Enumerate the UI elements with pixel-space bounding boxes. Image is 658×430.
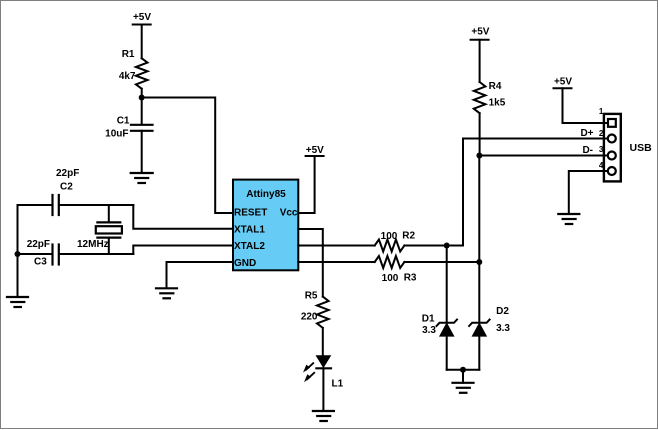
crystal X1 top plate — [97, 221, 120, 223]
wire GND-row pin to R3 — [298, 261, 374, 263]
resistor R5 — [317, 297, 329, 328]
wire D- junction down to R3 junction — [478, 156, 480, 263]
resistor R3 — [375, 256, 405, 268]
wire XTAL1 (corner down into pin) — [133, 205, 232, 229]
svg-text:D+: D+ — [580, 128, 593, 139]
zener diode D2 upper wire — [478, 262, 480, 323]
node junction diode bar/ground — [460, 367, 466, 373]
ground (chip GND) — [156, 288, 177, 298]
crystal X1 top stub — [108, 205, 110, 222]
crystal X1 body — [96, 226, 122, 233]
USB pin 4 pad — [608, 167, 616, 175]
wire pin PB1 to R5 — [298, 229, 323, 297]
svg-text:3: 3 — [599, 145, 604, 154]
zener diode D2 cathode (zener bar) — [469, 320, 490, 326]
wire diode common bottom bar — [447, 369, 480, 371]
wire junction to RESET pin — [142, 98, 233, 214]
wire R5 to LED L1 — [322, 328, 324, 356]
node junction R2/D1 — [444, 243, 450, 249]
svg-text:GND: GND — [234, 258, 256, 269]
LED L1 emission arrow 2 — [304, 373, 314, 382]
svg-text:4k7: 4k7 — [119, 71, 136, 82]
zener diode D2 lower wire — [478, 336, 480, 370]
resistor R1 — [136, 58, 148, 88]
node junction R4/D- — [476, 153, 482, 159]
node junction R3/D2 — [476, 259, 482, 265]
crystal X1 bottom stub — [108, 238, 110, 254]
LED L1 triangle — [316, 356, 330, 368]
ground (left rail) — [7, 297, 28, 307]
capacitor C3 — [53, 245, 59, 265]
svg-text:12MHz: 12MHz — [77, 239, 109, 250]
zener diode D1 upper wire — [446, 246, 448, 323]
IC U1 Attiny85 body — [233, 180, 298, 271]
node junction C3/left rail — [15, 251, 21, 257]
wire R2 to D+ riser — [404, 139, 463, 246]
USB pin 1 square pad — [608, 119, 616, 127]
USB connector J1 body — [604, 114, 621, 181]
wire R3 to D- riser — [404, 261, 479, 263]
wire D+ line to USB pin 2 — [463, 138, 608, 140]
wire left rail vertical — [17, 205, 19, 297]
svg-text:C3: C3 — [34, 257, 47, 268]
svg-text:L1: L1 — [332, 379, 344, 390]
svg-text:220: 220 — [301, 312, 318, 323]
power +5V net (top of R1) — [133, 25, 151, 59]
svg-text:D-: D- — [582, 145, 593, 156]
zener diode D2 triangle — [472, 323, 486, 336]
USB pin 3 pad — [608, 152, 616, 160]
capacitor C2 — [53, 195, 59, 215]
wire left rail to C3 left plate — [18, 253, 53, 255]
svg-text:+5V: +5V — [133, 12, 151, 23]
svg-text:R4: R4 — [489, 81, 502, 92]
LED L1 emission arrow 1 — [303, 363, 313, 372]
USB pin 2 pad — [608, 135, 616, 143]
svg-text:D1: D1 — [422, 314, 435, 325]
svg-text:XTAL1: XTAL1 — [234, 224, 265, 235]
svg-text:Vcc: Vcc — [280, 208, 298, 219]
svg-text:+5V: +5V — [306, 145, 324, 156]
svg-text:C2: C2 — [60, 182, 73, 193]
wire USB pin 4 to ground — [569, 171, 608, 214]
wire left rail to C2 left plate — [18, 204, 53, 206]
ground (below L1) — [313, 411, 334, 421]
svg-text:R2: R2 — [402, 231, 415, 242]
wire +5V to USB pin 1 — [563, 122, 608, 124]
power +5V net (USB pin1) — [554, 88, 572, 123]
svg-text:RESET: RESET — [234, 208, 267, 219]
svg-text:1k5: 1k5 — [489, 98, 506, 109]
svg-text:100: 100 — [382, 273, 399, 284]
node junction R1/C1/RESET — [139, 95, 145, 101]
svg-text:D2: D2 — [496, 306, 509, 317]
svg-text:+5V: +5V — [471, 27, 489, 38]
svg-text:3.3: 3.3 — [422, 325, 436, 336]
wire XTAL2 (corner up into pin) — [133, 246, 232, 255]
wire D- line to USB pin 3 — [479, 155, 608, 157]
svg-text:4: 4 — [599, 161, 604, 170]
zener diode D1 triangle — [440, 323, 454, 336]
svg-text:Attiny85: Attiny85 — [246, 189, 286, 200]
zener diode D1 lower wire — [446, 336, 448, 370]
wire XTAL2-row pin to R2 — [298, 245, 374, 247]
svg-text:1: 1 — [599, 107, 604, 116]
zener diode D1 cathode (zener bar) — [437, 320, 458, 326]
wire GND pin to ground — [167, 262, 234, 288]
svg-text:3.3: 3.3 — [496, 323, 510, 334]
svg-text:C1: C1 — [117, 116, 130, 127]
wire Vcc pin to +5V — [298, 156, 314, 213]
svg-text:2: 2 — [599, 129, 604, 138]
resistor R2 — [375, 240, 405, 252]
svg-text:100: 100 — [381, 231, 398, 242]
ground (USB shield) — [558, 214, 579, 224]
svg-text:22pF: 22pF — [27, 239, 50, 250]
svg-text:XTAL2: XTAL2 — [234, 241, 265, 252]
wire diode bar to ground — [462, 370, 464, 383]
svg-text:10uF: 10uF — [105, 129, 128, 140]
ground (below C1) — [131, 173, 153, 183]
crystal X1 bottom plate — [97, 237, 120, 239]
svg-text:+5V: +5V — [554, 77, 572, 88]
power +5V net (Vcc) — [306, 155, 324, 157]
power +5V net (R4 top) — [471, 40, 489, 82]
svg-text:R1: R1 — [122, 49, 135, 60]
svg-text:22pF: 22pF — [56, 168, 79, 179]
wire R4 bottom crossing D+ to D- junction — [479, 113, 481, 155]
wire L1 cathode to ground — [322, 368, 324, 411]
wire C2 right plate to XTAL1 corner — [59, 204, 133, 206]
svg-text:R3: R3 — [404, 272, 417, 283]
wire C3 right plate to XTAL2 corner — [59, 253, 133, 255]
wire C1 bottom to ground — [141, 131, 143, 173]
svg-text:USB: USB — [630, 142, 653, 154]
LED L1 cathode bar — [316, 367, 331, 369]
capacitor C1 — [131, 125, 153, 131]
wire R1 bottom to C1 top — [141, 89, 143, 125]
svg-text:R5: R5 — [305, 291, 318, 302]
resistor R4 — [474, 82, 486, 113]
ground (below diodes) — [453, 383, 474, 393]
